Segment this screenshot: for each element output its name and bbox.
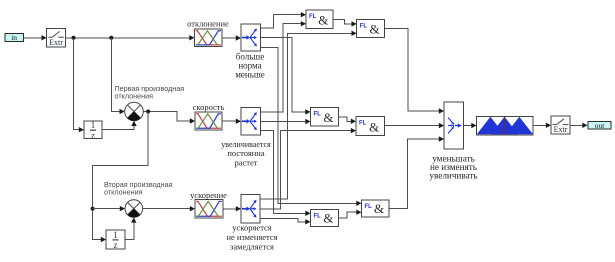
svg-text:in: in <box>11 33 17 42</box>
svg-text:FL: FL <box>359 121 367 127</box>
svg-text:z: z <box>91 130 95 140</box>
svg-text:&: & <box>374 201 384 216</box>
svg-text:ускорение: ускорение <box>190 190 227 200</box>
svg-text:FL: FL <box>314 214 322 220</box>
svg-text:отклонения: отклонения <box>104 188 143 197</box>
svg-text:&: & <box>323 211 333 226</box>
svg-text:FL: FL <box>309 14 317 20</box>
svg-text:меньше: меньше <box>235 70 265 80</box>
svg-text:1: 1 <box>113 230 118 240</box>
svg-text:Extr: Extr <box>554 125 568 134</box>
svg-text:отклонение: отклонение <box>187 19 229 29</box>
svg-text:увеличивать: увеличивать <box>429 171 477 181</box>
svg-text:FL: FL <box>360 24 368 30</box>
svg-text:1: 1 <box>91 120 96 130</box>
svg-text:FL: FL <box>365 204 373 210</box>
svg-text:растет: растет <box>235 157 258 167</box>
svg-text:Extr: Extr <box>49 38 63 47</box>
svg-text:&: & <box>323 110 333 125</box>
svg-text:не изменяется: не изменяется <box>226 232 277 242</box>
svg-text:out: out <box>595 121 606 130</box>
svg-text:&: & <box>369 120 379 135</box>
svg-text:отклонения: отклонения <box>115 92 154 101</box>
svg-text:FL: FL <box>314 112 322 118</box>
svg-text:ускоряется: ускоряется <box>232 223 271 233</box>
svg-text:скорость: скорость <box>193 102 225 112</box>
svg-text:z: z <box>114 240 118 250</box>
svg-text:&: & <box>318 13 328 28</box>
svg-text:&: & <box>370 22 380 37</box>
svg-text:замедляется: замедляется <box>230 242 274 252</box>
